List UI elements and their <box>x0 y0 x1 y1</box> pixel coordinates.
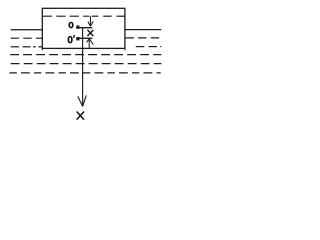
upper dimension arrow (down onto 0 line) <box>88 16 93 26</box>
water dashed line full row4 <box>10 54 161 56</box>
node dot at 0 <box>76 26 79 29</box>
left edge stub below bottom <box>41 48 43 50</box>
dashed equilibrium waterline inside body (right of arrow) <box>92 15 125 17</box>
water dashed line right row2 <box>126 37 162 39</box>
node dot at 0' <box>76 37 79 40</box>
prime mark of 0' <box>73 35 76 38</box>
x axis arrowhead <box>78 95 86 106</box>
water surface solid line left <box>11 29 43 31</box>
water dashed line left row2 <box>11 37 43 39</box>
water dashed line right row3 <box>136 46 162 48</box>
dashed equilibrium waterline inside body (left of arrow) <box>43 15 89 17</box>
water dashed line left row3 <box>11 46 43 48</box>
label 0 <box>68 22 73 29</box>
0' level line <box>79 37 92 39</box>
x axis line downward <box>82 28 84 106</box>
right edge stub below bottom <box>124 48 126 50</box>
lower dimension arrow (up onto 0' line) <box>87 39 94 48</box>
water surface solid line right <box>125 29 161 31</box>
floating body rectangle <box>42 8 125 48</box>
water dashed line full row5 <box>11 63 162 65</box>
displacement x between levels <box>87 30 93 36</box>
axis label x <box>77 112 84 120</box>
0 level line <box>79 27 92 29</box>
label 0' <box>68 36 73 44</box>
water dashed line full row6 <box>10 72 161 74</box>
